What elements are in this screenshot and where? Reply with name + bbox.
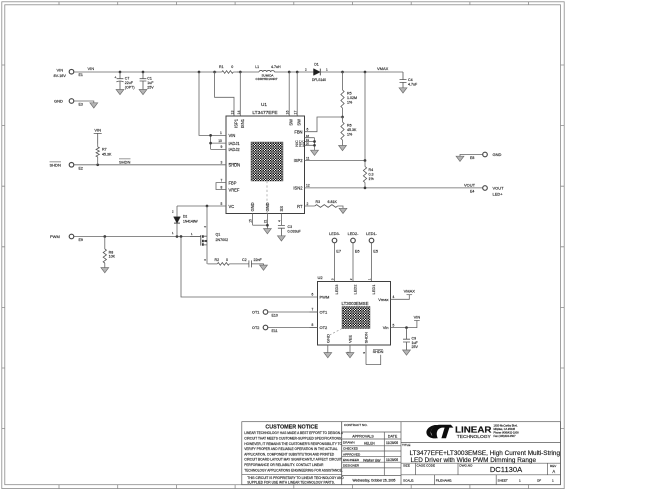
svg-text:9: 9	[221, 145, 223, 149]
svg-text:CIRCUIT THAT MEETS CUSTOMER-SU: CIRCUIT THAT MEETS CUSTOMER-SUPPLIED SPE…	[244, 437, 342, 441]
terminal E2 SHDN	[50, 162, 83, 170]
svg-text:OT2: OT2	[320, 325, 329, 330]
terminal E9 PWM	[50, 234, 83, 242]
svg-text:Q1: Q1	[216, 232, 221, 236]
drawn by name/date	[364, 441, 398, 445]
svg-text:LT3003EMSE: LT3003EMSE	[341, 301, 368, 306]
U2 top pin numbers	[330, 278, 371, 280]
svg-text:4: 4	[393, 295, 395, 299]
svg-text:D2: D2	[183, 215, 187, 219]
svg-text:SHEET: SHEET	[498, 478, 508, 482]
svg-text:U1: U1	[261, 102, 267, 107]
svg-text:21: 21	[263, 219, 267, 223]
wire VC row	[177, 205, 219, 207]
terminal E7 LED3-	[329, 232, 341, 254]
svg-text:PWM: PWM	[320, 295, 330, 300]
U2 left pin stubs	[310, 312, 318, 328]
op-amp U2 LT3003EMSE body	[318, 282, 391, 346]
svg-text:E7: E7	[336, 249, 341, 254]
R5 value label	[347, 92, 357, 105]
svg-text:2: 2	[305, 68, 307, 72]
resistor R2	[208, 263, 230, 266]
wire SW pin16	[288, 72, 290, 116]
svg-text:E4: E4	[470, 189, 474, 193]
svg-text:25V: 25V	[412, 345, 419, 349]
terminal E10 OT1	[252, 310, 278, 318]
svg-text:SW: SW	[297, 119, 302, 126]
ground after C2	[260, 265, 268, 270]
power flag VIN above R7	[94, 127, 102, 143]
svg-text:C2: C2	[242, 258, 247, 262]
wire SHDN	[74, 164, 219, 166]
junction dot SHDN/R7	[96, 163, 99, 166]
U2 right pin numbers	[393, 295, 395, 327]
wire VMAX down rail	[364, 72, 366, 161]
U1 left pin names	[229, 133, 241, 209]
svg-text:SW: SW	[289, 119, 294, 126]
svg-text:0: 0	[226, 258, 228, 262]
terminal E11 OT2	[252, 325, 278, 333]
wire Vmax pin4	[391, 295, 410, 300]
R6 value label	[347, 124, 357, 137]
svg-text:REV: REV	[550, 464, 557, 468]
svg-text:E11: E11	[272, 329, 278, 333]
svg-text:45.3K: 45.3K	[347, 128, 357, 132]
svg-text:VMAX: VMAX	[404, 289, 416, 294]
terminal E1 VIN	[54, 68, 83, 79]
svg-text:U2: U2	[318, 275, 324, 280]
svg-text:Vmax: Vmax	[378, 297, 388, 302]
wire LED1	[371, 243, 373, 282]
U2 top pin names	[334, 284, 376, 295]
svg-text:HELEN: HELEN	[364, 441, 375, 445]
svg-text:R6: R6	[347, 124, 352, 128]
svg-text:ISP1: ISP1	[233, 118, 238, 128]
U2 bottom pin stubs	[328, 345, 366, 365]
wire ISN1 pin14	[239, 72, 241, 116]
ground U1 GND pins	[264, 229, 272, 234]
svg-text:1: 1	[519, 478, 521, 482]
U2 pad dashed connection	[330, 329, 342, 335]
svg-text:C9: C9	[412, 336, 417, 340]
svg-text:TECHNOLOGY APPLICATIONS ENGINE: TECHNOLOGY APPLICATIONS ENGINEERING FOR …	[244, 468, 342, 472]
svg-text:CHECKED: CHECKED	[343, 447, 359, 451]
svg-text:2N7002: 2N7002	[216, 238, 229, 242]
svg-text:4: 4	[277, 220, 281, 222]
svg-text:12: 12	[306, 184, 310, 188]
svg-text:E3: E3	[79, 103, 83, 107]
svg-text:SUPPLIED FOR USE WITH LINEAR: SUPPLIED FOR USE WITH LINEAR TECHNOLOGY …	[247, 480, 335, 484]
svg-text:VIN: VIN	[229, 133, 236, 138]
svg-text:0.3: 0.3	[369, 173, 374, 177]
svg-text:Vin: Vin	[383, 325, 389, 330]
svg-text:1%: 1%	[347, 133, 353, 137]
U2 left pin numbers	[312, 293, 314, 328]
svg-text:LINEAR TECHNOLOGY HAS MADE A B: LINEAR TECHNOLOGY HAS MADE A BEST EFFORT…	[244, 431, 343, 435]
ground below C4	[399, 88, 407, 93]
svg-text:2: 2	[307, 202, 309, 206]
junction dot ISP2	[364, 159, 367, 162]
wire PWM row	[74, 236, 201, 238]
svg-text:LED3-: LED3-	[329, 232, 340, 236]
junction dots NC pins	[313, 140, 316, 147]
svg-text:1: 1	[220, 131, 222, 135]
svg-text:3: 3	[221, 161, 223, 165]
C1 value label	[147, 76, 154, 89]
svg-text:8: 8	[312, 323, 314, 327]
svg-text:IADJ1: IADJ1	[229, 141, 241, 146]
ground U2 VEE	[346, 353, 354, 358]
ground below C3	[278, 236, 286, 241]
wire VIN pin1 and IADJ pins	[199, 72, 219, 149]
ground below C1	[139, 90, 147, 95]
wire OT1	[268, 311, 318, 313]
ground E3	[90, 103, 98, 108]
svg-text:OT1: OT1	[252, 311, 259, 315]
customer notice box	[242, 422, 342, 485]
svg-text:R7: R7	[102, 148, 107, 152]
wire VIN rail	[74, 71, 316, 73]
U1 pad dashed connection	[266, 181, 268, 214]
R1 value label	[219, 65, 233, 69]
svg-text:E2: E2	[79, 166, 83, 170]
wire ISP2	[313, 160, 366, 162]
svg-text:11: 11	[306, 156, 310, 160]
svg-text:E6: E6	[355, 249, 360, 254]
svg-text:C3: C3	[288, 225, 293, 229]
svg-text:VIN: VIN	[94, 127, 101, 132]
svg-text:22nF: 22nF	[254, 258, 263, 262]
junction dot U1 GND	[266, 224, 269, 227]
svg-text:LED1: LED1	[371, 284, 376, 295]
svg-text:ISN1: ISN1	[240, 118, 245, 128]
svg-text:DC1130A: DC1130A	[490, 465, 523, 474]
C4 value label	[408, 78, 418, 86]
svg-text:DRAWN: DRAWN	[343, 441, 355, 445]
wire U2 SHDN pin9	[366, 355, 381, 365]
svg-text:OT1: OT1	[320, 310, 329, 315]
wire E3 to ground	[74, 101, 94, 103]
diode D1	[314, 69, 321, 76]
resistor R8	[103, 237, 106, 268]
svg-text:LED1-: LED1-	[366, 232, 377, 236]
svg-text:7: 7	[312, 308, 314, 312]
svg-text:E5: E5	[373, 249, 378, 254]
capacitor C7	[114, 72, 123, 90]
svg-text:Walker Bai: Walker Bai	[363, 458, 381, 462]
ground below C9	[403, 350, 411, 355]
svg-text:5: 5	[393, 323, 395, 327]
svg-text:11/28/05: 11/28/05	[386, 458, 398, 462]
resistor R4	[363, 161, 366, 188]
R8 value label	[109, 250, 116, 258]
svg-text:R8: R8	[109, 250, 114, 254]
svg-text:D1: D1	[314, 63, 319, 67]
svg-text:E8: E8	[470, 156, 474, 160]
svg-text:R3: R3	[316, 200, 321, 204]
svg-text:VERIFY PROPER AND RELIABLE OPE: VERIFY PROPER AND RELIABLE OPERATION IN …	[244, 447, 338, 451]
svg-text:R1: R1	[219, 65, 224, 69]
svg-text:1%: 1%	[347, 100, 353, 104]
svg-text:GND: GND	[54, 99, 63, 104]
wire LED2	[352, 243, 354, 282]
svg-text:0: 0	[231, 65, 233, 69]
op-amp U1 LT3477EFE body	[226, 116, 305, 214]
svg-text:GND: GND	[493, 152, 502, 157]
U2 bottom pin names	[325, 332, 368, 343]
svg-text:4.7uH: 4.7uH	[271, 65, 281, 69]
junction dot VC/Q1	[206, 205, 209, 208]
junction dots VIN pin	[209, 134, 212, 144]
title block grid	[342, 422, 561, 485]
approvals header	[352, 435, 398, 439]
svg-text:GND: GND	[250, 202, 255, 211]
junction dot R5/R6	[341, 116, 344, 119]
svg-text:E1: E1	[79, 73, 83, 77]
svg-text:TITLE: TITLE	[402, 443, 410, 447]
svg-text:RT: RT	[297, 204, 303, 209]
svg-text:7: 7	[221, 178, 223, 182]
resistor R5	[341, 72, 344, 117]
svg-text:LED2: LED2	[353, 284, 358, 295]
svg-text:LED3: LED3	[334, 284, 339, 295]
svg-text:FBN: FBN	[294, 129, 302, 134]
Q1 label	[216, 232, 229, 242]
U1 right pin numbers	[306, 128, 310, 206]
svg-text:25V: 25V	[147, 86, 154, 90]
svg-text:SIZE: SIZE	[403, 464, 410, 468]
svg-text:Phone (408)432-1900: Phone (408)432-1900	[494, 430, 520, 434]
svg-text:VEE: VEE	[348, 335, 353, 343]
wire FBP VREF jumper	[216, 183, 219, 190]
wire PWM down to U2	[181, 237, 318, 298]
U1 top pin names	[233, 118, 301, 128]
U1 exposed pad hatch	[251, 142, 283, 181]
svg-text:L1: L1	[255, 65, 259, 69]
svg-text:5: 5	[221, 202, 223, 206]
U1 right pin names	[293, 129, 303, 208]
U2 right pin names	[378, 297, 388, 330]
svg-text:LED Driver with Wide PWM Dimmi: LED Driver with Wide PWM Dimming Range	[411, 458, 537, 464]
wire R2 to C2	[229, 263, 249, 265]
svg-text:1uF: 1uF	[147, 81, 154, 85]
svg-text:N/C: N/C	[302, 140, 306, 147]
ground E8	[456, 156, 464, 161]
engineer name/date	[363, 458, 398, 462]
svg-text:ISN2: ISN2	[293, 186, 303, 191]
wire D1 to C4 VMAX	[320, 71, 403, 73]
ground below C7	[116, 90, 124, 95]
junction dot ISN2	[364, 187, 367, 190]
wire NC pins to ground	[314, 138, 316, 151]
svg-text:1.02M: 1.02M	[347, 96, 357, 100]
junction dot Vin/C9	[405, 326, 408, 329]
svg-text:15: 15	[249, 219, 253, 223]
U2 exposed pad hatch	[342, 307, 370, 329]
svg-text:SHDN: SHDN	[50, 162, 61, 167]
terminal E6 LED2-	[348, 232, 360, 254]
capacitor C3	[278, 225, 285, 235]
inductor L1	[259, 70, 275, 72]
svg-text:CONTRACT NO.: CONTRACT NO.	[344, 423, 368, 427]
svg-text:4.7uF: 4.7uF	[408, 82, 418, 86]
svg-text:6: 6	[312, 293, 314, 297]
terminal E8 GND	[470, 152, 502, 160]
ground below R8	[101, 268, 109, 273]
terminal E3 GND	[54, 99, 83, 107]
svg-text:3: 3	[330, 278, 334, 280]
svg-text:ENGINEER: ENGINEER	[343, 458, 360, 462]
svg-text:LT3477EFE: LT3477EFE	[252, 110, 277, 116]
svg-text:VOUT: VOUT	[464, 182, 476, 187]
terminal E5 LED1-	[366, 232, 378, 254]
svg-text:C1: C1	[147, 76, 152, 80]
junction dots PWM row	[103, 235, 182, 238]
U1 NC pin numbers 18 19 20	[306, 134, 309, 146]
svg-text:VMAX: VMAX	[377, 66, 389, 71]
U2 bottom pin numbers	[324, 351, 366, 355]
svg-text:APPROVALS: APPROVALS	[352, 435, 374, 439]
diode D2	[172, 206, 180, 237]
R4 value label	[369, 168, 375, 181]
wire E8 to ground	[460, 155, 483, 157]
svg-text:VIN: VIN	[414, 314, 421, 319]
svg-text:CUSTOMER NOTICE: CUSTOMER NOTICE	[265, 425, 318, 431]
svg-text:1: 1	[326, 68, 328, 72]
svg-text:VIN: VIN	[88, 66, 95, 71]
ground after R3	[339, 208, 347, 213]
U1 left pin stubs	[219, 135, 227, 206]
svg-text:PWM: PWM	[50, 234, 60, 239]
U1 bottom pin stubs	[253, 214, 282, 229]
svg-text:Fax (408)434-0507: Fax (408)434-0507	[494, 434, 517, 438]
svg-text:SCALE:: SCALE:	[403, 478, 414, 482]
svg-text:HOWEVER, IT REMAINS THE CUSTOM: HOWEVER, IT REMAINS THE CUSTOMER'S RESPO…	[244, 442, 342, 446]
svg-text:C4: C4	[408, 78, 413, 82]
svg-text:DFLS140: DFLS140	[312, 78, 326, 82]
svg-text:E9: E9	[79, 238, 83, 242]
svg-text:DATE: DATE	[388, 435, 398, 439]
R7 value label	[102, 148, 112, 157]
svg-text:45.3K: 45.3K	[102, 152, 112, 156]
svg-text:Milpitas, CA 95035: Milpitas, CA 95035	[494, 427, 516, 431]
svg-text:6.81K: 6.81K	[328, 200, 338, 204]
svg-text:OF: OF	[537, 478, 541, 482]
svg-text:14: 14	[237, 111, 241, 115]
C7 value label	[125, 76, 135, 89]
svg-text:1: 1	[552, 478, 554, 482]
svg-text:16: 16	[286, 111, 290, 115]
U1 NC pin names	[295, 140, 306, 147]
resistor R7	[96, 144, 99, 165]
svg-text:2: 2	[349, 278, 353, 280]
svg-text:VIN: VIN	[57, 68, 64, 73]
svg-text:13: 13	[230, 111, 234, 115]
svg-text:10K: 10K	[109, 255, 116, 259]
svg-text:C7: C7	[125, 76, 130, 80]
svg-text:SS: SS	[279, 206, 284, 212]
U1 SHDN pin name overline	[229, 162, 239, 164]
title block small labels	[343, 423, 557, 482]
svg-text:VREF: VREF	[229, 187, 240, 192]
transistor Q1 2N7002	[190, 206, 207, 264]
title text	[410, 451, 561, 464]
U1 top pin numbers	[230, 111, 297, 115]
capacitor C2	[249, 260, 264, 267]
svg-text:APPLICATION. COMPONENT SUBSTI: APPLICATION. COMPONENT SUBSTITUTION AND …	[244, 452, 335, 456]
R3 value label	[316, 200, 338, 204]
svg-text:(OPT): (OPT)	[125, 86, 135, 90]
svg-text:R4: R4	[369, 168, 374, 172]
svg-text:1630 McCarthy Blvd.: 1630 McCarthy Blvd.	[494, 423, 518, 427]
svg-text:PERFORMANCE OR RELIABILITY. C: PERFORMANCE OR RELIABILITY. CONTACT LINE…	[244, 463, 324, 467]
ground below R6	[339, 146, 347, 151]
C2 value label	[242, 258, 262, 262]
junction dots VIN rail	[119, 71, 299, 74]
svg-text:FBP: FBP	[229, 180, 237, 185]
D1 label	[305, 63, 328, 82]
svg-text:FILENAME:: FILENAME:	[436, 478, 452, 482]
svg-text:SHDN: SHDN	[364, 332, 369, 343]
wire ISN2 to VOUT	[313, 187, 483, 189]
svg-text:8: 8	[221, 185, 223, 189]
C3 value label	[288, 225, 302, 234]
svg-text:R2: R2	[215, 258, 220, 262]
svg-text:VC: VC	[229, 204, 235, 209]
svg-text:SHDN: SHDN	[119, 159, 130, 164]
TITLEBLOCK	[242, 422, 561, 485]
wire OT2	[268, 327, 318, 329]
wire SW pin17	[296, 72, 298, 116]
capacitor C9	[403, 328, 410, 350]
wire FBN to divider	[313, 117, 343, 132]
svg-text:E10: E10	[272, 313, 278, 317]
capacitor C4	[400, 72, 407, 88]
svg-text:22uF: 22uF	[125, 81, 134, 85]
svg-text:LED+: LED+	[493, 192, 504, 197]
U1 bottom pin names	[250, 202, 284, 211]
resistor R1	[215, 71, 241, 74]
D2 label	[183, 215, 199, 224]
svg-text:GND: GND	[325, 334, 330, 343]
svg-text:APPROVED: APPROVED	[343, 452, 361, 456]
svg-text:6: 6	[307, 128, 309, 132]
svg-text:LED2-: LED2-	[348, 232, 359, 236]
wire ISP1 pin13	[215, 72, 234, 116]
Linear Technology logo mark	[426, 425, 453, 439]
U1 right pin stubs	[305, 132, 315, 206]
node SHDN net label at U2	[373, 349, 384, 354]
svg-text:1: 1	[367, 278, 371, 280]
svg-text:A: A	[552, 469, 555, 474]
power flag VIN at U2	[414, 314, 421, 320]
resistor R6	[341, 117, 344, 146]
svg-text:SHDN: SHDN	[373, 350, 384, 354]
svg-text:VOUT: VOUT	[493, 186, 505, 191]
power flag VMAX at U2	[404, 289, 416, 295]
terminal E4 VOUT	[470, 186, 504, 197]
svg-text:1N4148W: 1N4148W	[183, 219, 199, 223]
junction dots VMAX rail	[341, 71, 366, 74]
svg-text:CIRCUIT BOARD LAYOUT MAY SIGNI: CIRCUIT BOARD LAYOUT MAY SIGNIFICANTLY A…	[244, 458, 342, 462]
ground NC pins	[311, 150, 319, 155]
svg-text:1uF: 1uF	[412, 341, 419, 345]
svg-text:GND: GND	[265, 202, 270, 211]
wire Vin pin5	[391, 321, 417, 328]
svg-text:ISP2: ISP2	[294, 158, 304, 163]
svg-text:DESIGNER: DESIGNER	[343, 464, 360, 468]
resistor R3	[313, 205, 344, 209]
